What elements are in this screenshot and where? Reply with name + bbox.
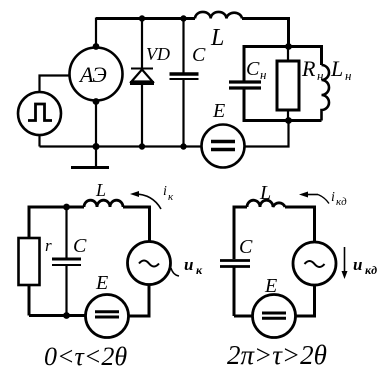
svg-text:VD: VD bbox=[146, 44, 170, 64]
svg-text:0<τ<2θ: 0<τ<2θ bbox=[44, 342, 127, 371]
svg-text:C: C bbox=[73, 235, 87, 257]
ac source u_kd bbox=[293, 242, 336, 285]
top wire bbox=[29, 207, 84, 238]
wire top rail right bbox=[242, 19, 289, 47]
capacitor Cn bbox=[229, 80, 261, 83]
svg-text:н: н bbox=[345, 68, 351, 83]
svg-text:2π>τ>2θ: 2π>τ>2θ bbox=[227, 340, 327, 370]
svg-text:L: L bbox=[330, 56, 343, 81]
capacitor C bbox=[65, 207, 67, 258]
svg-text:E: E bbox=[95, 272, 108, 294]
svg-text:E: E bbox=[264, 275, 277, 297]
polarity hook bbox=[171, 268, 179, 276]
wire E to load bbox=[245, 121, 289, 147]
wire AE bottom bbox=[95, 101, 97, 147]
node cap bottom bbox=[180, 143, 186, 149]
svg-text:L: L bbox=[210, 25, 224, 51]
node cap top bbox=[63, 204, 70, 211]
capacitor C (top) bbox=[182, 19, 184, 73]
wire E to ac source bbox=[296, 286, 315, 317]
svg-text:L: L bbox=[95, 180, 106, 200]
ground bbox=[95, 147, 97, 167]
svg-text:r: r bbox=[45, 236, 52, 255]
svg-text:i: i bbox=[163, 184, 167, 199]
current arrow iL bbox=[133, 194, 161, 209]
capacitor C bbox=[220, 259, 250, 262]
node AE top bbox=[93, 43, 100, 50]
load loop wires bbox=[244, 90, 322, 121]
svg-text:АЭ: АЭ bbox=[78, 62, 107, 87]
voltage arrow bbox=[344, 247, 346, 274]
ac source u_k bbox=[128, 242, 171, 285]
node ground junction bbox=[93, 143, 100, 150]
wire top rail left bbox=[96, 17, 195, 20]
active element AE bbox=[70, 48, 123, 101]
bottom wire bbox=[234, 315, 252, 318]
wire pulse bottom bbox=[38, 135, 40, 147]
svg-text:C: C bbox=[239, 236, 253, 258]
inductor L bbox=[247, 200, 285, 207]
wire E to ac source bbox=[129, 285, 150, 317]
svg-text:L: L bbox=[259, 182, 271, 204]
svg-text:к: к bbox=[168, 191, 174, 203]
svg-text:кд: кд bbox=[336, 196, 347, 208]
node load top bbox=[285, 43, 292, 50]
svg-text:C: C bbox=[246, 58, 260, 80]
bottom wire bbox=[29, 314, 86, 317]
node rail-cap bbox=[180, 15, 186, 21]
diode VD bbox=[141, 19, 143, 69]
battery E bbox=[86, 295, 129, 338]
node AE bottom bbox=[93, 98, 100, 105]
wire AE top to rail bbox=[95, 18, 97, 48]
resistor Rn bbox=[277, 61, 299, 110]
svg-text:к: к bbox=[196, 263, 203, 277]
current arrow i_kd bbox=[302, 194, 318, 196]
battery E (top) bbox=[202, 125, 245, 168]
pulse generator G1 bbox=[18, 92, 61, 135]
svg-text:R: R bbox=[301, 56, 316, 81]
inductor L (top) bbox=[195, 12, 242, 19]
node cap bottom bbox=[63, 312, 70, 319]
svg-text:u: u bbox=[184, 255, 193, 274]
svg-text:u: u bbox=[353, 255, 362, 274]
svg-text:i: i bbox=[331, 190, 335, 205]
battery E bbox=[253, 295, 296, 338]
svg-text:н: н bbox=[260, 67, 266, 82]
svg-text:E: E bbox=[212, 100, 225, 122]
svg-text:C: C bbox=[192, 44, 206, 66]
pulse symbol bbox=[28, 104, 52, 121]
svg-text:кд: кд bbox=[365, 263, 377, 277]
resistor r bbox=[19, 238, 40, 285]
node load bottom bbox=[285, 117, 292, 124]
node diode bottom bbox=[139, 143, 145, 149]
inductor Ln bbox=[322, 65, 330, 121]
top wire bbox=[234, 207, 247, 259]
wire pulse top to AE input bbox=[40, 76, 70, 93]
inductor L bbox=[84, 200, 123, 207]
bottom wire (top circuit) bbox=[40, 145, 202, 147]
node rail-diode bbox=[139, 15, 145, 21]
